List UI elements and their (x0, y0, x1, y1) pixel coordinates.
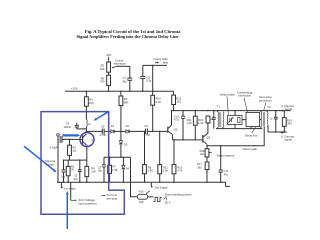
svg-text:4.7K: 4.7K (177, 169, 183, 173)
svg-text:C9: C9 (144, 124, 148, 128)
wire (108, 61, 110, 62)
phase network box (228, 116, 243, 125)
resistor R11 (159, 131, 161, 164)
svg-text:1.3K: 1.3K (198, 121, 204, 125)
svg-text:R10: R10 (156, 97, 161, 101)
svg-text:C6: C6 (101, 124, 105, 128)
wire (108, 86, 110, 92)
resistor R9 (120, 91, 122, 96)
wire (152, 65, 154, 95)
wire (104, 130, 111, 132)
capacitor C2 (63, 160, 65, 170)
resistor R12 (173, 91, 175, 95)
svg-text:100nF: 100nF (64, 125, 72, 129)
label to burst pre-amp (101, 195, 103, 197)
svg-text:R8: R8 (148, 165, 152, 169)
svg-text:30 V: 30 V (165, 200, 171, 204)
node line under Q1 (64, 159, 87, 161)
svg-text:98K: 98K (124, 101, 129, 105)
resistor R7 (109, 157, 111, 165)
svg-text:D2: D2 (126, 124, 130, 128)
resistor R10 (151, 95, 155, 105)
svg-text:4.7nF: 4.7nF (99, 133, 106, 137)
delay line box (246, 112, 260, 126)
wire (120, 106, 122, 132)
potentiometer R16 burst blanking (131, 182, 138, 197)
capacitor C11 (220, 146, 222, 170)
resistor R2 (67, 160, 69, 166)
svg-text:20V: 20V (106, 53, 111, 57)
svg-text:C4: C4 (66, 121, 70, 125)
svg-text:2nd Stage: 2nd Stage (154, 185, 168, 189)
wire (173, 105, 175, 111)
wire (130, 130, 146, 132)
svg-text:390: 390 (287, 122, 292, 126)
capacitor C1 (59, 136, 61, 143)
label ACC voltage input (70, 182, 72, 200)
wire bus (104, 156, 131, 158)
ground rail (57, 181, 226, 183)
svg-text:R16 -: R16 - (139, 190, 146, 194)
svg-text:Burst blanking pulses: Burst blanking pulses (165, 193, 192, 197)
resistor R1 (69, 139, 71, 145)
svg-text:L1: L1 (88, 122, 91, 126)
wire (130, 157, 132, 182)
svg-text:1.3K: 1.3K (186, 121, 192, 125)
svg-text:Delay balance: Delay balance (217, 153, 235, 157)
svg-text:transducer: transducer (238, 94, 251, 98)
svg-text:Q3: Q3 (207, 136, 211, 140)
capacitor C9 (145, 129, 147, 135)
wire (85, 106, 87, 120)
node chroma input terminal (57, 134, 60, 137)
wire collector line (86, 130, 102, 132)
svg-text:1.6K: 1.6K (112, 168, 118, 172)
pot wiper colour saturation (116, 65, 129, 67)
resistor R3 (85, 91, 87, 97)
wire bottom right rail (268, 131, 287, 133)
wire (57, 136, 59, 182)
svg-text:R11: R11 (163, 165, 168, 169)
svg-text:3.3µ: 3.3µ (146, 79, 152, 83)
diode D4 (122, 157, 124, 165)
wire bottom return (216, 128, 262, 130)
svg-text:signal: signal (285, 138, 293, 142)
resistor R13 (173, 140, 175, 165)
resistor R4 (86, 160, 88, 166)
svg-text:10K: 10K (100, 67, 105, 71)
svg-text:D1: D1 (111, 124, 115, 128)
svg-text:bias: bias (163, 61, 169, 65)
svg-text:D3: D3 (124, 142, 128, 146)
inductor L1 (85, 120, 88, 127)
capacitor C10 (182, 111, 184, 117)
blue arrow to chroma input (24, 146, 54, 170)
svg-text:Q2: Q2 (174, 127, 178, 131)
transistor Q1 (82, 135, 84, 144)
node U chroma output (279, 131, 282, 134)
transistor Q3 (202, 135, 204, 143)
resistor R8 (144, 131, 146, 164)
label 2nd stage (151, 182, 152, 187)
svg-text:D4: D4 (126, 166, 130, 170)
svg-text:1st stage: 1st stage (64, 186, 76, 190)
svg-text:Delay phase: Delay phase (220, 92, 236, 96)
capacitor C5 (79, 160, 81, 170)
wire emitter line (173, 139, 203, 141)
svg-text:pre-amp: pre-amp (107, 197, 118, 201)
svg-text:10µ: 10µ (61, 176, 66, 179)
potentiometer R18 delay balance (205, 149, 209, 157)
resistor R17 (206, 157, 208, 162)
blue highlight box around 1st stage (41, 112, 124, 215)
svg-text:C8: C8 (146, 75, 150, 79)
svg-text:0.33µF: 0.33µF (50, 145, 59, 149)
svg-text:R12: R12 (176, 96, 181, 100)
svg-text:Direct path: Direct path (243, 147, 258, 151)
wire (148, 196, 154, 198)
resistor R5 colour saturation pot (107, 62, 111, 72)
svg-text:33µ: 33µ (122, 79, 127, 83)
label 1st stage (61, 182, 62, 187)
wire (206, 144, 208, 148)
svg-text:transducer: transducer (259, 99, 272, 103)
capacitor C8 (140, 75, 145, 77)
+15V rail (65, 90, 174, 92)
svg-text:210: 210 (177, 100, 182, 104)
svg-text:5.6K: 5.6K (163, 169, 169, 173)
capacitor C7 (129, 66, 131, 78)
wire (108, 72, 110, 75)
capacitor 2n (275, 111, 277, 118)
svg-text:100: 100 (91, 170, 96, 174)
svg-text:+15V: +15V (71, 86, 78, 90)
wire (148, 130, 168, 132)
diode D1 (111, 130, 114, 133)
resistor collector load (206, 116, 210, 123)
svg-text:5.6K: 5.6K (148, 169, 154, 173)
wire (142, 65, 144, 76)
diode D2 (126, 130, 129, 133)
svg-text:Signal Amplifiers Feeding into: Signal Amplifiers Feeding into the Chrom… (76, 34, 178, 39)
svg-text:47µ: 47µ (74, 177, 79, 181)
node V chroma output (279, 110, 282, 112)
svg-text:1K2: 1K2 (89, 101, 94, 105)
svg-text:R3: R3 (89, 97, 93, 101)
wire (85, 127, 87, 132)
blue arrow up to 1st stage (66, 194, 68, 229)
svg-text:T2: T2 (267, 105, 271, 109)
svg-text:10µ: 10µ (98, 169, 103, 173)
svg-text:475: 475 (100, 80, 105, 84)
svg-text:7K: 7K (73, 149, 76, 153)
capacitor trimmer in phase box (229, 118, 231, 122)
svg-text:110: 110 (200, 152, 205, 156)
svg-text:R13: R13 (177, 165, 182, 169)
wire direct path (207, 126, 264, 145)
burst blanking pulse waveform (153, 197, 161, 201)
inductor in phase box (237, 117, 240, 122)
svg-text:R1: R1 (73, 146, 77, 150)
svg-text:47µ: 47µ (224, 172, 229, 176)
svg-text:380: 380 (197, 165, 202, 169)
resistor R19 (283, 111, 285, 118)
capacitor C3 (103, 157, 105, 165)
capacitor 4n (213, 111, 215, 118)
svg-text:input (positive): input (positive) (78, 202, 96, 206)
mid supply rail (172, 110, 291, 112)
svg-text:T1: T1 (217, 105, 221, 109)
resistor R15 (194, 111, 196, 117)
blue circle around Q1 (80, 133, 94, 147)
svg-text:Delay line: Delay line (245, 133, 258, 137)
svg-text:3.3K: 3.3K (156, 100, 162, 104)
svg-text:7K: 7K (71, 168, 74, 172)
blue arrow to Q1 base (63, 134, 77, 136)
svg-text:R9: R9 (124, 97, 128, 101)
wire (115, 130, 126, 132)
svg-text:saturation: saturation (114, 62, 127, 66)
diode D3 (120, 131, 122, 140)
transistor Q2 (167, 127, 169, 133)
svg-text:10K: 10K (139, 200, 144, 204)
blue arrow from box corner to Q1 (97, 112, 109, 119)
wire (152, 105, 154, 131)
resistor R6 (107, 75, 111, 85)
svg-text:signal: signal (285, 107, 293, 111)
capacitor C6 (101, 129, 103, 135)
